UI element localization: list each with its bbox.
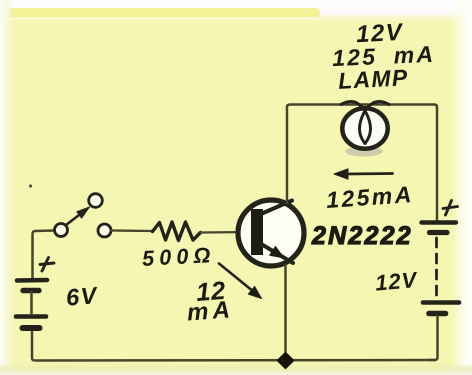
svg-text:2N2222: 2N2222 xyxy=(311,222,413,250)
svg-text:12V: 12V xyxy=(374,267,419,296)
wire: resistor to transistor base xyxy=(201,231,253,234)
wire: emitter down to junction xyxy=(284,265,287,356)
svg-text:mA: mA xyxy=(186,296,234,326)
lamp DS1 shadow xyxy=(345,147,383,157)
wire: collector up to top rail xyxy=(287,105,437,222)
battery B2 dashed link (cells omitted) xyxy=(435,238,438,297)
resistor R1 500 ohm zigzag xyxy=(153,222,201,241)
current arrow 12 mA (down-right near emitter) xyxy=(219,264,254,293)
wire: left vertical from switch down to 6V battery xyxy=(33,231,55,279)
transistor Q1 base bar xyxy=(251,209,263,255)
lamp DS1 bulb circle xyxy=(342,108,387,149)
lamp DS1 filament xyxy=(341,102,371,144)
switch S1 blade arrow xyxy=(66,212,83,225)
wire: bottom rail from 6V battery to 12V battery xyxy=(32,330,435,361)
transistor Q1 collector stroke xyxy=(262,201,292,214)
switch S1 left contact xyxy=(55,224,68,237)
battery B1 6V plus sign xyxy=(40,258,54,272)
ink fleck xyxy=(29,184,32,187)
current arrow 125mA (to the left, under lamp) xyxy=(345,172,393,175)
svg-text:LAMP: LAMP xyxy=(337,64,409,94)
battery B1 6V plates xyxy=(16,280,47,328)
switch S1 upper contact xyxy=(89,194,103,208)
wire: switch to resistor xyxy=(111,229,152,232)
transistor Q1 emitter stroke with arrow xyxy=(262,245,293,264)
battery B2 12V plus sign xyxy=(443,201,458,216)
junction node (emitter / bottom rail) xyxy=(278,353,293,368)
wire: 12V battery to bottom rail xyxy=(430,316,438,360)
svg-text:500Ω: 500Ω xyxy=(141,243,216,271)
switch S1 right contact xyxy=(98,224,111,237)
battery B2 12V upper cell plates xyxy=(422,220,457,224)
battery B2 lower cell plates xyxy=(423,300,459,305)
wire: 6V battery inter-cell link xyxy=(30,292,33,314)
svg-text:6V: 6V xyxy=(65,282,100,311)
transistor Q1 2N2222 body circle xyxy=(238,200,304,266)
